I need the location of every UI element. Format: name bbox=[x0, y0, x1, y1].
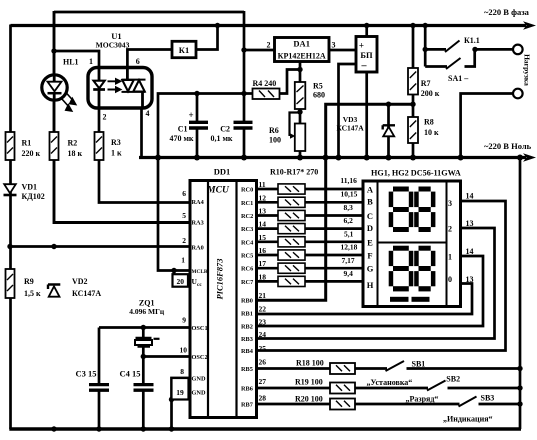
label Razryad bbox=[406, 395, 439, 404]
junction C1 on neutral rail bbox=[194, 155, 200, 161]
label C3 15 bbox=[76, 369, 97, 379]
svg-text:„Индикация“: „Индикация“ bbox=[443, 415, 493, 424]
svg-text:9: 9 bbox=[182, 316, 186, 325]
trimmer R6 100 bbox=[290, 113, 306, 152]
label ZQ1 4.096MHz bbox=[129, 298, 165, 316]
label DA1 KR142EN12A bbox=[278, 39, 326, 61]
junction C2 top node bbox=[241, 91, 246, 96]
label SB1 bbox=[412, 360, 426, 369]
svg-text:„Установка“: „Установка“ bbox=[367, 378, 413, 387]
svg-text:~220 В Ноль: ~220 В Ноль bbox=[484, 141, 532, 151]
svg-text:220 к: 220 к bbox=[22, 149, 41, 158]
junction C1 top node bbox=[194, 91, 199, 96]
resistor R11 270 bbox=[278, 197, 305, 207]
svg-text:12,18: 12,18 bbox=[341, 242, 358, 251]
resistor R3 1k bbox=[95, 132, 104, 160]
svg-text:MCU: MCU bbox=[206, 186, 230, 196]
wire MCU Ucc pin20 stub bbox=[173, 271, 176, 275]
svg-text:R4 240: R4 240 bbox=[253, 79, 277, 88]
svg-text:C2: C2 bbox=[220, 125, 230, 134]
svg-text:RC1: RC1 bbox=[241, 200, 253, 207]
wire RC5 pin16 row bbox=[257, 254, 364, 257]
junction ZQ1 C4 on OSC2 bbox=[141, 354, 146, 359]
svg-text:RC7: RC7 bbox=[241, 279, 253, 286]
junction SA1 to K1.1 node bbox=[472, 47, 477, 52]
svg-text:RA0: RA0 bbox=[192, 245, 204, 252]
seven segment digits group 2 bbox=[389, 246, 436, 302]
display right pin numbers 14 13 14 13 bbox=[466, 191, 474, 284]
label BP minus bbox=[361, 61, 368, 72]
zener VD3 KS147A bbox=[383, 125, 395, 136]
optocoupler U1 MOC3043 body bbox=[88, 68, 152, 109]
svg-text:SB1: SB1 bbox=[412, 360, 426, 369]
wire neutral rail ~220V nol bbox=[139, 156, 526, 159]
switch K1.1 blade bbox=[445, 41, 460, 53]
MCU pin20 Ucc box bbox=[173, 274, 189, 287]
svg-text:C: C bbox=[367, 211, 373, 221]
label R5 680 bbox=[313, 82, 325, 100]
voltage regulator DA1 KR142EN12A bbox=[275, 38, 330, 62]
svg-text:B: B bbox=[367, 197, 373, 207]
wire OSC1 pin9 row bbox=[99, 326, 190, 329]
label R2 18k bbox=[68, 139, 83, 159]
svg-text:9,4: 9,4 bbox=[344, 269, 354, 278]
label C1 470mk bbox=[169, 110, 193, 143]
MCU right pin numbers bbox=[259, 180, 267, 403]
svg-text:RB6: RB6 bbox=[241, 386, 253, 393]
svg-text:VD2: VD2 bbox=[72, 277, 88, 286]
junction VD1 R9 on RA0 wire bbox=[7, 244, 12, 249]
resistor R9 1.5k bbox=[6, 269, 15, 298]
svg-text:PIC16F873: PIC16F873 bbox=[214, 258, 224, 300]
power supply block BP bbox=[356, 37, 377, 73]
svg-text:10 к: 10 к bbox=[424, 128, 439, 137]
wire DA1 pin2 bbox=[244, 49, 275, 52]
wire RB5 pin26 row with SB1 bbox=[257, 367, 521, 370]
svg-text:RB1: RB1 bbox=[241, 311, 253, 318]
svg-text:„Разряд“: „Разряд“ bbox=[406, 395, 439, 404]
wire crystal ZQ1 vertical bbox=[142, 328, 145, 357]
junction K1.1 contact node bbox=[423, 47, 428, 52]
resistor R7 200k bbox=[408, 68, 418, 95]
LED HL1 bbox=[42, 75, 77, 112]
junction R5 R6 divider bbox=[297, 109, 302, 114]
wire BP plus pin to phase rail bbox=[365, 25, 368, 38]
svg-text:1: 1 bbox=[89, 57, 93, 66]
svg-text:R7: R7 bbox=[421, 79, 431, 88]
capacitor C3 15 bbox=[89, 385, 109, 391]
load terminal circle 1 bbox=[513, 45, 523, 55]
resistor R16 270 bbox=[278, 263, 305, 273]
label R19 100 bbox=[295, 378, 323, 387]
svg-text:A: A bbox=[367, 185, 374, 195]
junction C4 on bottom rail bbox=[141, 426, 146, 431]
svg-text:4.096 МГц: 4.096 МГц bbox=[129, 307, 165, 316]
svg-text:RC3: RC3 bbox=[241, 226, 253, 233]
svg-text:R20 100: R20 100 bbox=[295, 394, 323, 403]
label DD1 bbox=[214, 167, 231, 177]
wire VD3 branch bbox=[387, 104, 390, 158]
svg-text:1 к: 1 к bbox=[111, 149, 122, 158]
svg-text:2: 2 bbox=[448, 224, 452, 233]
wire R7 R8 divider branch bbox=[412, 25, 415, 159]
label R8 10k bbox=[424, 118, 439, 138]
svg-text:КР142ЕН12А: КР142ЕН12А bbox=[278, 52, 326, 61]
label K1 bbox=[179, 45, 189, 55]
wire MCU GND pin8 and pin19 to bottom rail bbox=[172, 378, 191, 429]
svg-text:VD1: VD1 bbox=[22, 183, 38, 192]
svg-text:470 мк: 470 мк bbox=[169, 134, 193, 143]
svg-text:HL1: HL1 bbox=[63, 58, 79, 67]
wire optocoupler pin4 down to neutral rail bbox=[140, 107, 143, 158]
svg-text:RB2: RB2 bbox=[241, 324, 253, 331]
pin 1 optocoupler bbox=[89, 57, 93, 66]
wire K1.1 SA1 branch from phase rail bbox=[424, 25, 427, 67]
label C4 15 bbox=[120, 369, 141, 379]
wire K1.1 to load terminal bbox=[474, 48, 514, 51]
junction SB2 common bbox=[517, 385, 522, 390]
resistor R8 10k bbox=[408, 117, 418, 143]
label R10-R17 270 bbox=[270, 168, 318, 177]
svg-text:1,5 к: 1,5 к bbox=[24, 289, 41, 298]
MCU left pin numbers bbox=[176, 189, 187, 397]
wire RC1 pin12 row bbox=[257, 201, 364, 204]
wire SA1 contact left bbox=[425, 65, 447, 68]
resistor R13 270 bbox=[278, 224, 305, 234]
diode VD1 KD102 bbox=[4, 184, 17, 195]
svg-text:19: 19 bbox=[176, 388, 184, 397]
wire common line C1/C2/R4 down to MCLR bbox=[158, 94, 253, 271]
svg-text:RB7: RB7 bbox=[241, 402, 253, 409]
wire C4 branch bbox=[142, 357, 145, 430]
resistor R1 220k bbox=[6, 132, 15, 160]
svg-text:2: 2 bbox=[103, 113, 107, 122]
label Ustanovka bbox=[367, 378, 413, 387]
svg-text:6: 6 bbox=[182, 189, 186, 198]
svg-text:3: 3 bbox=[332, 41, 336, 50]
wire phase rail ~220V faza bbox=[11, 24, 527, 27]
label R20 100 bbox=[295, 394, 323, 403]
svg-text:7,17: 7,17 bbox=[342, 256, 355, 265]
svg-text:КС147А: КС147А bbox=[336, 124, 364, 133]
svg-text:RB5: RB5 bbox=[241, 366, 253, 373]
label load Nagruzka bbox=[523, 54, 532, 86]
svg-text:2: 2 bbox=[182, 236, 186, 245]
resistor R15 270 bbox=[278, 250, 305, 260]
wire RC3 pin14 row bbox=[257, 227, 364, 230]
resistor R18 100 bbox=[330, 363, 355, 374]
wire RC0 pin11 row bbox=[257, 188, 364, 191]
svg-text:КС147А: КС147А bbox=[72, 289, 101, 298]
wire bottom common rail bbox=[9, 427, 521, 430]
svg-text:0: 0 bbox=[448, 275, 452, 284]
resistor R19 100 bbox=[330, 383, 355, 394]
svg-text:RB3: RB3 bbox=[241, 336, 253, 343]
svg-text:БП: БП bbox=[360, 50, 373, 60]
wire RB1 pin22 to display pin0 bbox=[257, 284, 473, 315]
junction C2 on neutral rail bbox=[241, 155, 247, 161]
svg-text:G: G bbox=[367, 264, 374, 274]
junction BP minus branch on neutral rail bbox=[336, 155, 342, 161]
junction VD3 on neutral rail bbox=[386, 155, 392, 161]
arrowhead neutral rail bbox=[523, 153, 536, 162]
svg-text:RC6: RC6 bbox=[241, 266, 253, 273]
label R6 100 bbox=[269, 126, 281, 145]
resistor R12 270 bbox=[278, 210, 305, 220]
pin 6 optocoupler bbox=[136, 57, 140, 66]
label R4 240 bbox=[253, 79, 277, 88]
svg-text:26: 26 bbox=[259, 358, 267, 367]
resistor R5 680 bbox=[295, 82, 306, 109]
junction R6 on neutral rail bbox=[297, 155, 303, 161]
svg-text:D: D bbox=[367, 223, 373, 233]
display segment letters A-H bbox=[367, 185, 374, 291]
wire RB3 pin24 to display pin2 bbox=[257, 228, 495, 339]
svg-text:MOC3043: MOC3043 bbox=[96, 41, 130, 50]
capacitor C2 0.1mk bbox=[234, 122, 253, 128]
svg-text:+: + bbox=[189, 110, 194, 120]
svg-text:F: F bbox=[367, 251, 372, 261]
svg-text:200 к: 200 к bbox=[421, 89, 440, 98]
label C2 0.1mk bbox=[210, 125, 232, 144]
svg-text:E: E bbox=[367, 238, 373, 248]
svg-text:H: H bbox=[367, 280, 374, 290]
label 220V neutral bbox=[484, 141, 532, 151]
svg-text:1: 1 bbox=[448, 252, 452, 261]
svg-text:18: 18 bbox=[259, 272, 267, 281]
load terminal circle 2 bbox=[513, 89, 523, 99]
switch SB2 blade bbox=[427, 381, 446, 391]
wire left vertical (R1/VD1/R9 branch) bbox=[9, 25, 12, 430]
svg-text:1: 1 bbox=[181, 256, 185, 265]
junction BP plus on phase rail bbox=[364, 23, 369, 28]
label VD3 KS147A bbox=[336, 115, 364, 133]
junction GND pin19 bbox=[169, 397, 174, 402]
label R1 220k bbox=[22, 139, 41, 159]
junction DA1 pin2 node bbox=[241, 47, 246, 52]
capacitor C4 15 bbox=[134, 385, 154, 391]
svg-text:11,16: 11,16 bbox=[340, 176, 357, 185]
svg-text:GND: GND bbox=[192, 376, 206, 383]
svg-text:R18 100: R18 100 bbox=[296, 359, 324, 368]
junction R8 on neutral rail bbox=[410, 155, 416, 161]
svg-text:Нагрузка: Нагрузка bbox=[523, 54, 532, 86]
switch SB1 blade bbox=[386, 361, 405, 371]
junction VD2 on bottom rail bbox=[51, 426, 56, 431]
switch SA1 blade bbox=[446, 58, 461, 69]
label PIC16F873 bbox=[214, 258, 224, 300]
wire K1 coil to phase rail bbox=[196, 25, 218, 50]
svg-text:680: 680 bbox=[313, 91, 325, 100]
label HG1 HG2 DC56-11GWA bbox=[371, 169, 461, 178]
wire RC2 pin13 row bbox=[257, 214, 364, 217]
svg-text:21: 21 bbox=[259, 291, 267, 300]
wire top link HL1 node to DA1 input bbox=[54, 11, 244, 14]
wire C1 branch bbox=[196, 94, 199, 159]
pin 3 DA1 bbox=[332, 41, 336, 50]
resistor R4 240 bbox=[253, 89, 280, 100]
wire BP left lower branch to neutral rail bbox=[339, 64, 357, 158]
svg-text:4: 4 bbox=[146, 109, 150, 118]
resistor R17 270 bbox=[278, 276, 305, 286]
junction GND on bottom rail bbox=[169, 426, 174, 431]
svg-text:0,1 мк: 0,1 мк bbox=[210, 134, 232, 143]
svg-text:R6: R6 bbox=[269, 126, 279, 135]
svg-text:6: 6 bbox=[136, 57, 140, 66]
svg-text:13: 13 bbox=[466, 275, 474, 284]
svg-text:RA3: RA3 bbox=[192, 220, 204, 227]
resistor R20 100 bbox=[330, 399, 355, 410]
relay coil K1 bbox=[172, 41, 196, 57]
wire RB7 pin28 row with SB3 bbox=[257, 403, 521, 406]
pin 2 DA1 bbox=[267, 41, 271, 50]
junction ZQ1 top on OSC1 bbox=[141, 325, 146, 330]
svg-text:К1: К1 bbox=[179, 45, 189, 55]
arrowhead phase rail bbox=[523, 21, 536, 30]
junction SB3 common bbox=[517, 401, 522, 406]
svg-text:OSC1: OSC1 bbox=[192, 325, 208, 332]
label SB2 bbox=[446, 375, 460, 384]
crystal ZQ1 4.096MHz bbox=[135, 338, 160, 347]
label BP bbox=[360, 50, 373, 60]
svg-text:RA4: RA4 bbox=[192, 199, 205, 206]
svg-text:RB0: RB0 bbox=[241, 298, 253, 305]
optocoupler internal LED bbox=[93, 68, 105, 107]
svg-text:RB4: RB4 bbox=[241, 348, 254, 355]
svg-text:RC5: RC5 bbox=[241, 253, 253, 260]
display HG1 HG2 DC56-11GWA box bbox=[363, 181, 461, 307]
svg-text:16: 16 bbox=[259, 246, 267, 255]
resistor R2 18k bbox=[50, 132, 59, 160]
label SB3 bbox=[481, 394, 495, 403]
junction K1 to phase rail bbox=[215, 23, 220, 28]
svg-text:C3 15: C3 15 bbox=[76, 369, 97, 379]
wire RB2 pin23 to display pin1 bbox=[257, 256, 484, 326]
junction load return on neutral rail bbox=[458, 155, 464, 161]
label VD1 KD102 bbox=[22, 183, 45, 202]
svg-text:HG1, HG2 DC56-11GWA: HG1, HG2 DC56-11GWA bbox=[371, 169, 461, 178]
svg-text:~220 В фаза: ~220 В фаза bbox=[484, 7, 530, 17]
wire RB4 pin25 to display pin3 bbox=[257, 201, 506, 351]
svg-text:–: – bbox=[361, 61, 368, 72]
MCU pin19 GND box bbox=[172, 378, 189, 400]
wire optocoupler pin1 to HL1 node bbox=[54, 51, 99, 68]
optocoupler coupling arrows bbox=[108, 78, 122, 92]
pin 4 optocoupler bbox=[146, 109, 150, 118]
svg-text:R10-R17* 270: R10-R17* 270 bbox=[270, 168, 318, 177]
junction VD2 on RA0 wire bbox=[51, 244, 56, 249]
wire DA1 pin3 to BP bbox=[329, 49, 356, 52]
wire RB6 pin27 row with SB2 bbox=[257, 387, 521, 390]
wire DA1 input vertical with C2 bbox=[243, 11, 246, 158]
label 220V phase bbox=[484, 7, 530, 17]
svg-text:8: 8 bbox=[180, 367, 184, 376]
svg-text:C1: C1 bbox=[178, 125, 188, 134]
svg-text:13: 13 bbox=[466, 219, 474, 228]
svg-text:10: 10 bbox=[180, 346, 188, 355]
svg-text:2: 2 bbox=[267, 41, 271, 50]
display digit select numbers 3210 bbox=[448, 199, 452, 284]
junction common line on neutral rail bbox=[155, 155, 161, 161]
svg-text:R19 100: R19 100 bbox=[295, 378, 323, 387]
junction VD3 top bbox=[386, 102, 391, 107]
resistor R10 270 bbox=[278, 184, 305, 194]
svg-text:6,2: 6,2 bbox=[344, 216, 354, 225]
label U1 MOC3043 bbox=[96, 31, 130, 50]
svg-text:3: 3 bbox=[448, 199, 452, 208]
svg-text:+: + bbox=[359, 41, 364, 51]
label HL1 bbox=[63, 58, 79, 67]
svg-text:24: 24 bbox=[259, 330, 267, 339]
junction R7 on phase rail bbox=[410, 23, 415, 28]
svg-text:SB3: SB3 bbox=[481, 394, 495, 403]
label SA1 bbox=[448, 74, 469, 83]
junction HL1 anode / U1 pin1 bbox=[51, 48, 56, 53]
junction R7 R8 divider bbox=[410, 102, 415, 107]
label R18 100 bbox=[296, 359, 324, 368]
wire K1.1 contact left bbox=[425, 48, 446, 51]
svg-text:DA1: DA1 bbox=[293, 39, 310, 49]
svg-text:100: 100 bbox=[269, 136, 281, 145]
svg-text:17: 17 bbox=[259, 259, 267, 268]
wire HL1/R2 vertical branch bbox=[54, 11, 190, 223]
wire DA1 adj pin through R5 R6 to rail bbox=[299, 62, 302, 159]
seven segment digits group 1 bbox=[389, 187, 436, 233]
label Indikatsiya bbox=[443, 415, 493, 424]
wire BP minus pin down to neutral rail bbox=[365, 72, 368, 159]
junction buttons common on neutral rail bbox=[517, 155, 523, 161]
svg-text:12: 12 bbox=[259, 193, 267, 202]
wire load terminal 2 return to neutral bbox=[461, 94, 513, 159]
MCU left pin names bbox=[192, 199, 208, 397]
svg-text:15: 15 bbox=[259, 233, 267, 242]
svg-text:RC0: RC0 bbox=[241, 187, 253, 194]
label K1.1 bbox=[464, 36, 480, 45]
svg-text:SA1 –: SA1 – bbox=[448, 74, 469, 83]
svg-text:OSC2: OSC2 bbox=[192, 354, 208, 361]
svg-text:R1: R1 bbox=[22, 139, 32, 148]
svg-text:cc: cc bbox=[197, 282, 202, 288]
svg-text:RC2: RC2 bbox=[241, 213, 253, 220]
wire RC4 pin15 row bbox=[257, 240, 364, 243]
svg-text:R8: R8 bbox=[424, 118, 434, 127]
MCU right pin names bbox=[241, 187, 254, 409]
label R3 1k bbox=[111, 138, 122, 158]
junction RB0 line on neutral rail bbox=[323, 155, 329, 161]
zener VD2 KS147A bbox=[48, 285, 60, 297]
svg-text:13: 13 bbox=[259, 207, 267, 216]
svg-text:11: 11 bbox=[259, 180, 266, 189]
svg-text:18 к: 18 к bbox=[68, 149, 83, 158]
svg-text:R2: R2 bbox=[68, 139, 78, 148]
svg-text:22: 22 bbox=[259, 305, 267, 314]
svg-text:RC4: RC4 bbox=[241, 239, 254, 246]
wire RC7 pin18 row bbox=[257, 280, 364, 283]
svg-text:C4 15: C4 15 bbox=[120, 369, 141, 379]
resistor R14 270 bbox=[278, 237, 305, 247]
wire SA1 right side up to K1.1 bbox=[465, 49, 475, 66]
svg-text:10,15: 10,15 bbox=[341, 190, 358, 199]
wire optocoupler pin2 to R3 to RA4 bbox=[99, 107, 190, 203]
svg-text:DD1: DD1 bbox=[214, 167, 231, 177]
svg-text:MCLR: MCLR bbox=[192, 269, 208, 275]
label R7 200k bbox=[421, 79, 440, 98]
svg-text:R3: R3 bbox=[111, 138, 121, 147]
svg-text:5: 5 bbox=[182, 211, 186, 220]
wire RA0 pin2 row VD1 VD2 bbox=[10, 245, 190, 248]
svg-text:R9: R9 bbox=[24, 277, 34, 286]
label R9 bbox=[24, 277, 41, 298]
